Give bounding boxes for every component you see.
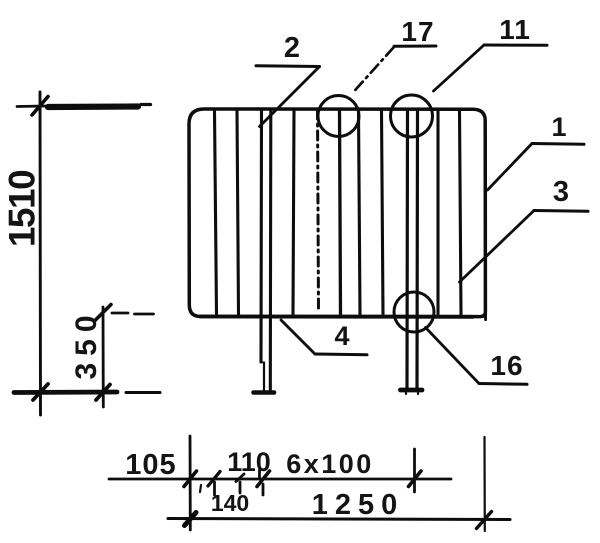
svg-text:1: 1: [551, 112, 566, 142]
svg-text:16: 16: [490, 350, 523, 381]
svg-text:17: 17: [401, 16, 434, 47]
svg-text:140: 140: [211, 490, 249, 516]
svg-text:110: 110: [227, 447, 271, 477]
svg-text:1510: 1510: [2, 170, 43, 247]
svg-text:2: 2: [284, 32, 300, 64]
svg-text:4: 4: [334, 321, 349, 351]
svg-text:3: 3: [553, 176, 569, 208]
svg-text:1250: 1250: [312, 489, 405, 521]
svg-text:105: 105: [125, 449, 176, 481]
svg-text:350: 350: [70, 308, 103, 379]
svg-text:11: 11: [499, 14, 531, 45]
svg-text:6x100: 6x100: [286, 449, 374, 479]
